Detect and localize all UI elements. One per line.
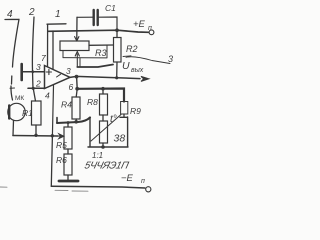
svg-text:п: п bbox=[148, 25, 152, 32]
pin 6 label bbox=[69, 82, 74, 92]
+E terminal bbox=[149, 30, 154, 35]
wire pin2 input bbox=[28, 87, 45, 89]
svg-text:3: 3 bbox=[66, 66, 71, 76]
svg-text:вых: вых bbox=[131, 67, 144, 74]
t label bbox=[110, 114, 117, 125]
pin 4 label bbox=[45, 91, 50, 101]
junction pin2/R1 bbox=[32, 87, 35, 90]
svg-text:R5: R5 bbox=[56, 140, 67, 150]
wire pin4 down bbox=[52, 86, 53, 136]
svg-text:1:1: 1:1 bbox=[92, 151, 103, 160]
microphone MK bbox=[8, 103, 25, 120]
pin 5 label bbox=[66, 66, 71, 76]
C1 label bbox=[105, 3, 116, 13]
wire C1 to R3 wiper (crosses rail) bbox=[76, 17, 78, 37]
bottom common wire bbox=[13, 135, 58, 138]
svg-text:R4: R4 bbox=[61, 100, 72, 110]
pin 7 label bbox=[41, 53, 46, 63]
svg-text:6: 6 bbox=[69, 82, 74, 92]
device type label bbox=[83, 161, 130, 172]
resistor R6 bbox=[64, 154, 72, 175]
node 3 callout label bbox=[168, 54, 173, 64]
wire R3 left end down bbox=[62, 51, 64, 58]
wire R3 bottom loop bbox=[77, 65, 113, 68]
svg-text:3: 3 bbox=[168, 54, 173, 64]
wire pin2 to R1 bbox=[33, 88, 35, 101]
R9 label bbox=[130, 106, 141, 116]
wire -E vertical bbox=[51, 136, 52, 187]
resistor R9 bbox=[121, 102, 128, 115]
svg-text:R2: R2 bbox=[126, 44, 138, 54]
output wire with arrow bbox=[70, 76, 140, 78]
wire R3 lower link bbox=[63, 45, 107, 67]
svg-text:5ЧЧЯЭ1П: 5ЧЧЯЭ1П bbox=[83, 161, 130, 172]
feedback bus wire bbox=[77, 89, 124, 102]
+E supply rail bbox=[48, 30, 149, 32]
junction output bbox=[75, 75, 79, 79]
R3 label bbox=[95, 48, 107, 58]
svg-text:+E: +E bbox=[133, 19, 146, 30]
R5 label bbox=[56, 140, 67, 150]
op-amp minus mark bbox=[57, 74, 61, 77]
svg-text:U: U bbox=[122, 60, 130, 72]
svg-text:7: 7 bbox=[41, 53, 46, 63]
-Ep label bbox=[121, 173, 145, 185]
svg-text:4: 4 bbox=[7, 9, 13, 20]
node 4 callout line bbox=[5, 19, 19, 100]
R4 label bbox=[61, 100, 72, 110]
potentiometer R3 bbox=[60, 41, 89, 51]
ground bar bbox=[59, 180, 78, 183]
junction thermistor/box bbox=[101, 145, 105, 149]
wire pin8 to rail bbox=[52, 31, 54, 69]
wire output to feedback bbox=[76, 77, 79, 89]
svg-text:2: 2 bbox=[35, 78, 41, 88]
svg-text:3: 3 bbox=[36, 62, 41, 72]
R3 wiper arrow (down) bbox=[75, 37, 79, 41]
svg-text:C1: C1 bbox=[105, 3, 116, 13]
lower bus stub bbox=[56, 118, 58, 123]
svg-text:4: 4 bbox=[45, 91, 50, 101]
R6 label bbox=[56, 155, 67, 165]
+Ep label bbox=[133, 19, 152, 32]
pin 3 label bbox=[36, 62, 41, 72]
junction pin3 wire bbox=[31, 70, 34, 73]
svg-text:п: п bbox=[141, 178, 145, 185]
wire pin7 to rail bbox=[47, 31, 49, 67]
pin 2 label bbox=[35, 78, 41, 88]
wire R4 top bbox=[76, 89, 77, 97]
R8 label bbox=[87, 97, 98, 107]
svg-text:t°: t° bbox=[110, 114, 117, 125]
junction R8 top bbox=[101, 87, 105, 91]
-E supply rail bbox=[51, 186, 145, 188]
resistor R2 bbox=[114, 38, 122, 63]
wire R3 right end bbox=[89, 44, 113, 46]
R3 lower wiper arrow (up) bbox=[75, 52, 79, 68]
thermistor diagonal bbox=[91, 115, 121, 142]
svg-text:2: 2 bbox=[28, 7, 35, 18]
-E terminal bbox=[146, 187, 151, 192]
svg-text:38: 38 bbox=[114, 133, 126, 145]
junction R5 top bbox=[67, 121, 70, 124]
resistor R8 bbox=[100, 94, 108, 115]
wire mic bottom bbox=[12, 121, 15, 136]
svg-text:1: 1 bbox=[55, 9, 61, 20]
node 1 callout label bbox=[55, 9, 61, 20]
R5 wiper arrow bbox=[58, 134, 64, 139]
svg-text:R8: R8 bbox=[87, 97, 98, 107]
thermistor RK bbox=[100, 121, 108, 143]
Uvyh label bbox=[122, 60, 144, 74]
svg-text:МК: МК bbox=[15, 95, 24, 102]
junction pin4/bottom wire bbox=[51, 134, 54, 137]
resistor R5 bbox=[64, 127, 72, 149]
junction C1/rail bbox=[115, 28, 119, 32]
svg-text:R9: R9 bbox=[130, 106, 141, 116]
R2 label bbox=[126, 44, 138, 54]
svg-text:R6: R6 bbox=[56, 155, 67, 165]
input terminal bar bbox=[20, 64, 23, 80]
node 1 callout line bbox=[47, 24, 66, 31]
scan artifact tick bbox=[10, 87, 15, 89]
op-amp U1 bbox=[45, 66, 71, 89]
lower bus wire bbox=[57, 118, 90, 124]
resistor R1 bbox=[32, 101, 42, 125]
svg-text:R3: R3 bbox=[95, 48, 107, 58]
junction feedback bbox=[75, 87, 79, 91]
resistor R4 bbox=[72, 97, 80, 119]
wire R6 bottom bbox=[67, 175, 69, 180]
microphone element bar bbox=[8, 106, 10, 119]
node 2 callout label bbox=[28, 7, 35, 18]
R1 label bbox=[22, 108, 33, 118]
node 2 callout line bbox=[32, 17, 34, 88]
junction R1/rail bbox=[34, 134, 37, 137]
thermistor value label bbox=[114, 133, 126, 145]
scan artifact dashes bbox=[0, 187, 88, 191]
wire R8 top bbox=[102, 89, 104, 94]
node 4 callout label bbox=[7, 9, 13, 20]
Uvyh vector bar bbox=[123, 55, 131, 58]
thermal enclosure box bbox=[88, 117, 128, 147]
DA1 label bbox=[92, 151, 103, 160]
svg-text:−E: −E bbox=[121, 173, 134, 184]
node 3 callout line bbox=[126, 57, 170, 64]
junction R2 output bbox=[115, 76, 118, 79]
op-amp plus mark bbox=[46, 69, 51, 74]
MK label bbox=[15, 95, 24, 102]
wire pin3 input bbox=[23, 71, 45, 73]
capacitor C1 bbox=[77, 16, 93, 18]
wire R5 top bbox=[67, 123, 69, 127]
junction R4 bottom bbox=[74, 120, 78, 124]
